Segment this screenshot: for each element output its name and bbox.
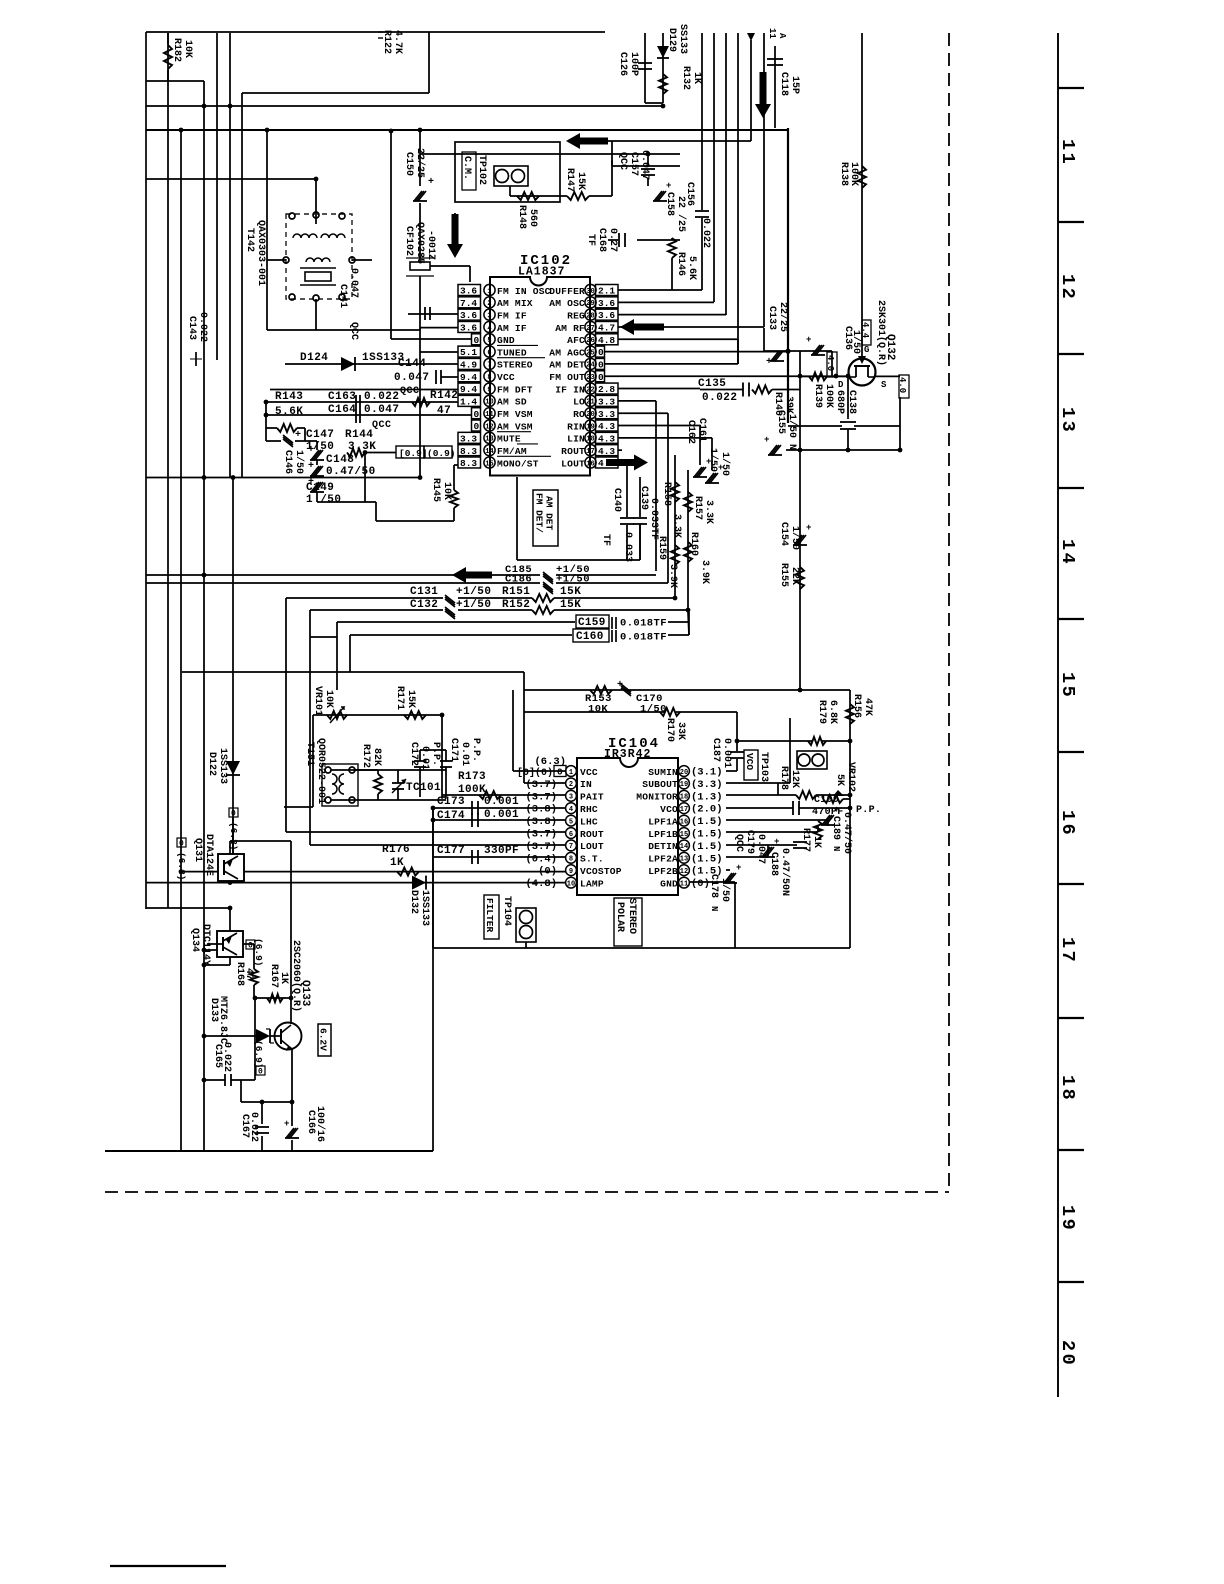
svg-text:9: 9 xyxy=(569,868,573,876)
ruler tick 1 xyxy=(1058,87,1084,89)
label C158 22/25 xyxy=(664,192,687,232)
svg-text:C133: C133 xyxy=(766,306,777,330)
IC104 pin 4 RHC xyxy=(525,803,597,816)
label C178 1/50 N xyxy=(708,874,731,911)
svg-text:+: + xyxy=(617,680,623,691)
svg-text:0: 0 xyxy=(474,409,480,420)
svg-text:22: 22 xyxy=(586,386,594,394)
svg-text:TF: TF xyxy=(600,534,611,546)
IC104 pin 7 LOUT xyxy=(525,840,603,853)
svg-text:0.018TF: 0.018TF xyxy=(620,618,667,630)
IC102 pin 13 MUTE xyxy=(458,432,531,445)
IC102 pin 12 AM VSM xyxy=(472,420,533,432)
capacitor C189 xyxy=(821,805,839,825)
svg-text:C157: C157 xyxy=(628,152,639,176)
op-amp U IC102 body xyxy=(490,277,590,476)
label C187 0.001 xyxy=(710,738,732,768)
label G boxed 4.4 xyxy=(860,320,871,355)
capacitor C162 xyxy=(705,463,723,483)
wire bus vertical xyxy=(725,33,727,315)
svg-text:(3.7): (3.7) xyxy=(525,791,557,803)
label C154 1/50 xyxy=(778,522,801,550)
svg-text:19: 19 xyxy=(586,423,594,431)
svg-text:AM AGC: AM AGC xyxy=(549,347,585,358)
svg-text:3.9K: 3.9K xyxy=(699,560,710,584)
resistor R157 xyxy=(684,492,692,512)
IC104 pin 11 GND xyxy=(660,877,710,890)
svg-text:1SS133: 1SS133 xyxy=(217,748,228,784)
wire lo row xyxy=(618,401,656,571)
svg-text:0.033: 0.033 xyxy=(622,532,633,562)
wire t151 rows xyxy=(331,750,446,800)
wire x800 down xyxy=(799,450,801,689)
svg-text:TP104: TP104 xyxy=(501,896,512,926)
wire bus xyxy=(146,80,204,82)
svg-text:4: 4 xyxy=(487,325,491,333)
schematic sheet border (left edge) xyxy=(145,32,147,909)
svg-text:A: A xyxy=(777,33,787,39)
capacitor C148 xyxy=(308,445,324,465)
label VR101 10K xyxy=(312,686,334,716)
svg-text:0.022: 0.022 xyxy=(702,392,738,404)
label R138 100K xyxy=(838,162,859,186)
label R170 33K xyxy=(664,718,686,742)
wire ro row xyxy=(618,413,668,583)
svg-text:17: 17 xyxy=(586,448,594,456)
svg-text:C150: C150 xyxy=(403,152,414,176)
svg-text:20: 20 xyxy=(586,411,594,419)
label C139 0.033TF xyxy=(638,486,659,540)
wire in row xyxy=(524,690,566,783)
svg-text:(3.8): (3.8) xyxy=(525,816,557,828)
svg-text:(1.5): (1.5) xyxy=(691,816,723,828)
label C144 0.047 QCC xyxy=(394,358,430,397)
capacitor C185 xyxy=(543,572,553,584)
svg-text:5K: 5K xyxy=(834,774,845,786)
svg-text:QCC: QCC xyxy=(348,322,359,340)
TP104 jumper xyxy=(516,908,536,948)
label C186 +1/50 xyxy=(505,574,668,586)
svg-text:C141: C141 xyxy=(337,284,348,308)
wire rout row xyxy=(618,449,622,451)
svg-text:1: 1 xyxy=(569,769,573,777)
wire q133 base xyxy=(202,1034,281,1039)
label T151 QOR0522-001 xyxy=(304,738,326,804)
svg-text:16: 16 xyxy=(680,818,688,826)
capacitor C160 box xyxy=(350,612,689,672)
svg-text:QCC: QCC xyxy=(372,420,392,431)
wire amsd row xyxy=(264,400,458,405)
svg-text:11: 11 xyxy=(767,28,777,39)
svg-text:C154: C154 xyxy=(778,522,789,546)
transistor Q132 2SK301 xyxy=(849,340,876,386)
svg-text:(3.8): (3.8) xyxy=(525,804,557,816)
label 11 A xyxy=(767,28,787,39)
wire main row y376 xyxy=(800,374,850,379)
wire xyxy=(146,177,318,182)
zener D133 xyxy=(256,1029,274,1043)
svg-text:RHC: RHC xyxy=(580,804,598,815)
label C179 0.047 QCC xyxy=(733,830,766,864)
svg-text:R146: R146 xyxy=(675,252,686,276)
boxed labels q131 xyxy=(176,808,239,881)
capacitor C186 xyxy=(543,582,553,594)
label C156 0.022 xyxy=(684,182,711,248)
wire fmvsm row xyxy=(264,413,471,418)
svg-text:R155: R155 xyxy=(778,563,789,587)
svg-text:3.3K: 3.3K xyxy=(671,514,682,538)
wire lout row xyxy=(310,844,566,846)
wire bus vertical xyxy=(737,33,739,364)
capacitor C167 xyxy=(255,1102,269,1151)
T142 primary coil xyxy=(293,234,345,238)
label POLAR STEREO xyxy=(614,898,642,946)
capacitor C163 xyxy=(356,395,360,409)
label D132 1SS133 xyxy=(408,890,430,926)
svg-text:[0](0): [0](0) xyxy=(517,767,553,779)
svg-text:(3.7): (3.7) xyxy=(525,779,557,791)
capacitor C131 xyxy=(445,595,455,607)
svg-text:2: 2 xyxy=(569,781,573,789)
svg-text:100/16: 100/16 xyxy=(314,1106,326,1142)
svg-text:C147: C147 xyxy=(306,429,334,441)
IC104 pin 8 S.T. xyxy=(525,852,603,865)
ruler label 16 xyxy=(1057,810,1078,837)
svg-text:FM/AM: FM/AM xyxy=(497,446,527,457)
svg-text:R171: R171 xyxy=(394,686,405,710)
wire lpf1a row xyxy=(726,820,828,826)
svg-text:15: 15 xyxy=(485,460,493,468)
label R168 47 xyxy=(234,962,254,986)
IC102 pin 7 STEREO xyxy=(458,358,545,371)
label S xyxy=(881,380,887,390)
svg-text:R179: R179 xyxy=(816,700,827,724)
svg-text:0: 0 xyxy=(258,1068,263,1077)
svg-text:R138: R138 xyxy=(838,162,849,186)
svg-text:C126: C126 xyxy=(617,52,628,76)
variable resistor VR102 xyxy=(823,739,852,803)
label T142 QAX0303-001 xyxy=(244,220,266,286)
svg-text:+: + xyxy=(428,177,434,188)
wire ifin row xyxy=(618,388,700,390)
wire q134 emitter xyxy=(228,906,233,931)
IC104 pin 18 MONITOR xyxy=(636,790,722,803)
svg-text:16: 16 xyxy=(586,460,594,468)
svg-text:R144: R144 xyxy=(345,429,373,441)
svg-text:330PF: 330PF xyxy=(484,845,519,857)
resistor R179 xyxy=(808,737,826,745)
wire bus vertical xyxy=(750,40,752,141)
svg-text:STEREO: STEREO xyxy=(626,898,637,934)
svg-text:R160: R160 xyxy=(688,532,699,556)
test point TP103 xyxy=(744,750,769,782)
label C118 15P xyxy=(778,72,800,96)
wire xyxy=(146,105,663,107)
svg-text:Q133: Q133 xyxy=(299,980,311,1007)
svg-text:3.6: 3.6 xyxy=(598,310,615,321)
resistor R155 xyxy=(796,567,804,589)
label Q132 2SK301(Q.R) xyxy=(875,300,896,366)
label C168 0.27 TF xyxy=(585,228,618,252)
svg-text:TP102: TP102 xyxy=(476,155,487,185)
wire c186 row xyxy=(146,582,540,584)
label C167 0.022 xyxy=(239,1112,259,1142)
label R144 3.3K xyxy=(345,429,376,453)
wire amagc row xyxy=(605,349,791,354)
svg-text:AM DET: AM DET xyxy=(544,496,555,531)
label C185 +1/50 xyxy=(505,564,656,576)
trimmer TC101 xyxy=(392,770,406,800)
label D xyxy=(838,380,844,390)
resistor R142 xyxy=(412,398,430,406)
resistor R182 xyxy=(164,33,172,81)
label R182 10K xyxy=(171,38,193,62)
vertical wire x204 xyxy=(202,81,207,1151)
wire xyxy=(418,128,423,186)
label D124 1SS133 xyxy=(300,352,405,364)
svg-text:0: 0 xyxy=(598,372,604,383)
svg-text:SUBOUT: SUBOUT xyxy=(642,779,678,790)
ruler tick 6 xyxy=(1058,751,1084,753)
svg-text:R145: R145 xyxy=(430,478,441,502)
label D129 SS133 xyxy=(666,24,688,54)
svg-text:C155: C155 xyxy=(775,410,786,434)
label R176 1K xyxy=(382,844,410,869)
capacitor C143 xyxy=(186,312,208,366)
svg-text:C188: C188 xyxy=(768,852,779,876)
label CF102 QAX0285 -001Z xyxy=(403,222,436,264)
svg-text:13: 13 xyxy=(680,856,688,864)
svg-text:+: + xyxy=(806,335,811,345)
test point TP104 xyxy=(484,895,512,939)
ruler tick 3 xyxy=(1058,353,1084,355)
IC102 pin 20 RO xyxy=(573,408,618,420)
svg-text:(3.3): (3.3) xyxy=(691,779,723,791)
svg-text:C158: C158 xyxy=(664,192,675,216)
svg-text:C174: C174 xyxy=(437,810,465,822)
svg-text:QOR0522-001: QOR0522-001 xyxy=(315,738,326,804)
wire bus vertical xyxy=(713,33,715,302)
ruler label 14 xyxy=(1057,539,1078,566)
label C190 470PF xyxy=(812,795,844,818)
wire subout row xyxy=(726,718,790,783)
svg-text:0.27: 0.27 xyxy=(607,228,618,252)
svg-text:0: 0 xyxy=(248,942,253,951)
label C189 0.47/50 N xyxy=(830,812,853,854)
svg-text:25: 25 xyxy=(586,349,594,357)
IC104 pin 14 DETIN xyxy=(648,840,722,853)
svg-text:(0.4): (0.4) xyxy=(525,853,557,865)
svg-text:3.9K: 3.9K xyxy=(667,564,678,588)
IC104 pin 19 SUBOUT xyxy=(642,778,722,791)
wire down r145 xyxy=(365,465,454,521)
wire x420 ext xyxy=(419,330,421,478)
label R155 22K xyxy=(778,563,800,587)
svg-text:RIN: RIN xyxy=(567,421,585,432)
capacitor C133 xyxy=(764,302,789,368)
label R122 4.7K xyxy=(378,30,403,54)
wire xyxy=(644,33,646,103)
svg-text:5.6K: 5.6K xyxy=(686,256,697,280)
IC102 pin 3 FM IF xyxy=(458,309,527,321)
svg-text:D124: D124 xyxy=(300,352,328,364)
boxed 4.0 left xyxy=(825,351,837,377)
wire vcc row xyxy=(436,370,458,384)
IC104 pin 17 VCO xyxy=(660,803,722,816)
capacitor C178 xyxy=(723,863,741,883)
TP103 jumper xyxy=(797,751,827,769)
svg-text:AM VSM: AM VSM xyxy=(497,421,533,432)
label C138 680P xyxy=(834,390,857,414)
label C171 0.01 P.P. xyxy=(448,738,481,766)
label 6.2V box xyxy=(318,1024,332,1056)
resistor R178 xyxy=(778,791,852,799)
svg-text:0.047: 0.047 xyxy=(639,150,650,180)
wire tp102 xyxy=(510,186,560,196)
IC102 pin 30 DUFFER xyxy=(549,284,618,296)
wire xyxy=(391,338,471,340)
svg-text:QAX0303-001: QAX0303-001 xyxy=(255,220,266,286)
svg-text:4.8: 4.8 xyxy=(598,335,615,346)
svg-text:28: 28 xyxy=(586,312,594,320)
resistor R159 xyxy=(671,545,679,565)
ruler label 15 xyxy=(1057,672,1078,699)
svg-text:C140: C140 xyxy=(611,488,622,512)
svg-text:R152: R152 xyxy=(502,599,530,611)
ruler tick 10 xyxy=(1058,1281,1084,1283)
svg-text:T151: T151 xyxy=(304,742,315,766)
svg-text:(6.3): (6.3) xyxy=(176,852,187,881)
svg-text:13: 13 xyxy=(485,436,493,444)
svg-text:7.4: 7.4 xyxy=(460,298,477,309)
svg-text:1SS133: 1SS133 xyxy=(419,890,430,926)
T142 pins xyxy=(283,212,355,301)
label D133 MTZ6.8JC xyxy=(208,996,228,1044)
svg-text:GND: GND xyxy=(660,878,678,889)
svg-text:D122: D122 xyxy=(206,752,217,776)
arrow left C185 xyxy=(452,567,492,583)
wire rhc row xyxy=(431,806,566,811)
svg-text:4.7: 4.7 xyxy=(598,323,615,334)
capacitor C172 xyxy=(414,750,426,797)
svg-text:+: + xyxy=(764,435,769,445)
svg-text:C156: C156 xyxy=(684,182,695,206)
svg-text:6: 6 xyxy=(569,831,573,839)
transistor Q133 xyxy=(275,1023,302,1052)
vertical wire x181 xyxy=(179,128,184,1151)
svg-text:1/50: 1/50 xyxy=(786,414,798,438)
IC102 pin 19 RIN xyxy=(567,420,618,432)
svg-text:4.3: 4.3 xyxy=(598,433,615,444)
ruler label 18 xyxy=(1057,1075,1078,1102)
wire q131 emitter xyxy=(230,841,291,854)
svg-text:+: + xyxy=(766,357,772,368)
svg-text:1/50: 1/50 xyxy=(719,452,731,476)
IC102 pin 4 AM IF xyxy=(458,321,527,333)
svg-text:C.M.: C.M. xyxy=(461,156,472,180)
svg-text:0.47/50: 0.47/50 xyxy=(841,812,853,854)
wire lpf2b row xyxy=(726,869,730,871)
capacitor C187 xyxy=(730,752,744,771)
svg-text:R157: R157 xyxy=(692,496,703,520)
svg-text:3: 3 xyxy=(569,794,573,802)
transformer T142 dashed box xyxy=(286,214,352,299)
svg-text:POLAR: POLAR xyxy=(614,902,625,932)
svg-text:1K: 1K xyxy=(390,857,404,869)
svg-text:C148: C148 xyxy=(326,454,354,466)
capacitor C136 xyxy=(806,335,825,355)
resistor R139 xyxy=(809,372,827,380)
wire xyxy=(612,166,680,240)
svg-text:S.T.: S.T. xyxy=(580,854,604,865)
svg-text:30: 30 xyxy=(586,288,594,296)
svg-text:R148: R148 xyxy=(516,205,527,229)
svg-text:LOUT: LOUT xyxy=(561,458,585,469)
svg-text:AM IF: AM IF xyxy=(497,323,527,334)
bottom-left page mark xyxy=(110,1565,226,1567)
label R140 39K xyxy=(772,392,794,416)
svg-text:(1.5): (1.5) xyxy=(691,866,723,878)
svg-text:0: 0 xyxy=(474,421,480,432)
label R158 3.3K xyxy=(661,482,682,538)
label R157 3.3K xyxy=(692,496,714,524)
svg-text:1K: 1K xyxy=(691,72,702,84)
resistor R156 xyxy=(846,704,854,724)
wire x433 down xyxy=(432,808,434,1151)
svg-text:4.3: 4.3 xyxy=(598,421,615,432)
svg-text:VR101: VR101 xyxy=(312,686,323,716)
wire lhc row xyxy=(431,818,566,823)
svg-text:R147: R147 xyxy=(564,168,575,192)
wire c131 row xyxy=(286,598,443,832)
label D122 1SS133 xyxy=(206,748,228,784)
svg-text:15K: 15K xyxy=(560,599,581,611)
wire xyxy=(611,141,613,166)
svg-text:0: 0 xyxy=(598,360,604,371)
svg-text:C160: C160 xyxy=(576,631,604,643)
IC104 pin 13 LPF2A xyxy=(648,852,722,865)
svg-text:REG: REG xyxy=(567,310,585,321)
IC102 pin 28 REG xyxy=(567,309,618,321)
svg-text:9: 9 xyxy=(487,386,491,394)
wire y998 xyxy=(253,996,294,1080)
svg-text:(1.3): (1.3) xyxy=(691,791,723,803)
wire x433 seg xyxy=(432,808,434,948)
svg-text:0: 0 xyxy=(598,347,604,358)
label C126 100P xyxy=(617,52,639,76)
svg-text:C172: C172 xyxy=(408,742,419,766)
svg-text:15P: 15P xyxy=(789,76,800,94)
svg-text:1 /50: 1 /50 xyxy=(306,494,342,506)
label R156 47K xyxy=(851,694,873,718)
label TP102 xyxy=(476,155,487,185)
label C166 100/16 xyxy=(305,1106,326,1142)
svg-text:C164: C164 xyxy=(328,404,356,416)
IC102 pin 26 AFC xyxy=(567,334,618,346)
svg-text:0.47/50: 0.47/50 xyxy=(326,466,376,478)
IC104 pin 12 LPF2B xyxy=(648,865,722,878)
IC102 pin 14 FM/AM xyxy=(458,444,538,457)
svg-text:(4.8): (4.8) xyxy=(525,878,557,890)
svg-text:5.6K: 5.6K xyxy=(275,406,303,418)
svg-text:8: 8 xyxy=(569,856,573,864)
svg-text:(3.7): (3.7) xyxy=(525,841,557,853)
label R160 3.9K xyxy=(688,532,710,584)
wire x442 down xyxy=(440,713,445,797)
wire y154 xyxy=(420,152,680,157)
svg-text:R167: R167 xyxy=(268,964,279,988)
svg-text:C138: C138 xyxy=(846,390,857,414)
